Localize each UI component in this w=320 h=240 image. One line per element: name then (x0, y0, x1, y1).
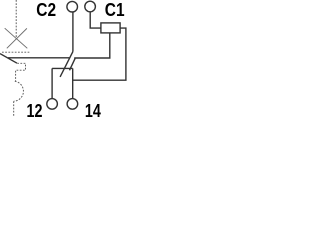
wire: stem from top-right circle to coil left (90, 12, 101, 28)
terminal circle 14 (67, 99, 78, 110)
wire: right rail up to coil bottom tap (74, 33, 110, 58)
wire: stem down to circle 14 (72, 68, 74, 98)
mechanical link: dashed tail (13, 101, 15, 117)
mechanical coupling dashed horizontal (2, 51, 30, 53)
manual operator X stroke 2 (7, 28, 27, 48)
mechanical link: dashed vertical top (15, 0, 17, 38)
coil box (101, 23, 120, 33)
svg-text:14: 14 (85, 101, 102, 120)
terminal circle top-left (C2 coil) (67, 1, 78, 12)
svg-text:C2: C2 (36, 0, 56, 20)
wire: coil right to bottom net (73, 28, 126, 80)
mechanical link: dashed Z path (16, 63, 26, 81)
manual operator X stroke 1 (5, 28, 28, 48)
contact blade A (60, 52, 73, 77)
svg-text:12: 12 (27, 101, 43, 120)
wire: left rail (8, 57, 69, 59)
svg-text:C1: C1 (105, 0, 125, 20)
wire: left edge diagonal (0, 54, 17, 64)
wire: stem from top-left circle down (72, 12, 74, 52)
terminal circle 12 (47, 99, 58, 110)
wire: lower rail (52, 67, 73, 69)
terminal circle top-right (C1 coil) (85, 1, 96, 12)
wire: stem down to circle 12 (51, 68, 53, 98)
latch semicircle (14, 81, 24, 101)
contact blade B (70, 58, 76, 70)
